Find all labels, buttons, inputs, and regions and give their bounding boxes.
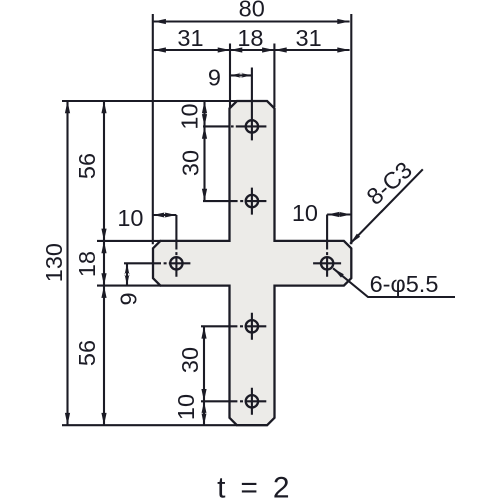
extension line bar-right top (x=274.4) bbox=[273, 44, 275, 108]
hole H6 bottom (circle) bbox=[246, 395, 258, 407]
svg-text:t = 2: t = 2 bbox=[217, 472, 293, 500]
extension line bottom edge leftward (y=425.2) bbox=[62, 424, 237, 426]
dimension 130 line bbox=[66, 101, 68, 425]
hole H2 (circle) bbox=[246, 195, 258, 207]
svg-text:10: 10 bbox=[173, 394, 199, 420]
svg-text:30: 30 bbox=[177, 150, 203, 176]
hole H6 center lines bbox=[201, 388, 266, 415]
svg-text:56: 56 bbox=[74, 153, 100, 179]
hole H1 top (circle) bbox=[246, 120, 258, 132]
svg-text:9: 9 bbox=[116, 292, 142, 305]
svg-text:6-φ5.5: 6-φ5.5 bbox=[370, 271, 439, 297]
svg-text:10: 10 bbox=[177, 103, 203, 129]
svg-text:30: 30 bbox=[177, 347, 203, 373]
hole HR center lines bbox=[313, 215, 341, 277]
svg-text:31: 31 bbox=[177, 25, 203, 51]
svg-text:10: 10 bbox=[292, 200, 318, 226]
hole H2 center lines bbox=[203, 188, 266, 215]
dimension 10-30 upper middle line bbox=[203, 101, 205, 201]
hole HR right arm (circle) bbox=[321, 257, 333, 269]
dimension 10 right line bbox=[327, 213, 351, 215]
dimension 80 line bbox=[154, 20, 350, 22]
svg-text:10: 10 bbox=[117, 205, 143, 231]
hole HL center lines bbox=[124, 215, 190, 277]
svg-text:18: 18 bbox=[237, 25, 263, 51]
dimension 31-18-31 line bbox=[154, 49, 350, 51]
dimension 9 top line bbox=[230, 74, 252, 76]
plate outline (cross-shaped plate, chamfered corners 8-C3) bbox=[153, 101, 351, 425]
leader 8-C3 line bbox=[350, 169, 423, 243]
svg-text:8-C3: 8-C3 bbox=[362, 157, 417, 210]
dimension 56-18-56 line bbox=[103, 101, 105, 425]
hole H5 (circle) bbox=[246, 320, 258, 332]
svg-text:56: 56 bbox=[74, 340, 100, 366]
svg-text:18: 18 bbox=[74, 251, 100, 277]
svg-text:31: 31 bbox=[296, 25, 322, 51]
extension line left long (x=152.8) bbox=[152, 14, 154, 244]
extension line top edge leftward (y=101) bbox=[62, 100, 237, 102]
extension line bar-left top (x=230) bbox=[229, 44, 231, 108]
leader 6-phi5.5 line bbox=[333, 268, 455, 297]
svg-text:130: 130 bbox=[41, 243, 67, 282]
svg-text:80: 80 bbox=[239, 0, 265, 22]
hole H5 center lines bbox=[201, 313, 266, 340]
extension line arm bottom leftward (y=285.6) bbox=[97, 285, 161, 287]
extension line arm top leftward (y=240.9) bbox=[97, 240, 161, 242]
hole H1 center lines bbox=[203, 68, 266, 141]
svg-text:9: 9 bbox=[208, 65, 221, 91]
extension line right long (x=351.3) bbox=[350, 14, 352, 244]
dimension 10 left line bbox=[153, 214, 177, 216]
dimension 9 left line bbox=[126, 263, 128, 285]
dimension 30-10 lower middle line bbox=[203, 326, 205, 425]
hole HL left arm (circle) bbox=[170, 257, 182, 269]
